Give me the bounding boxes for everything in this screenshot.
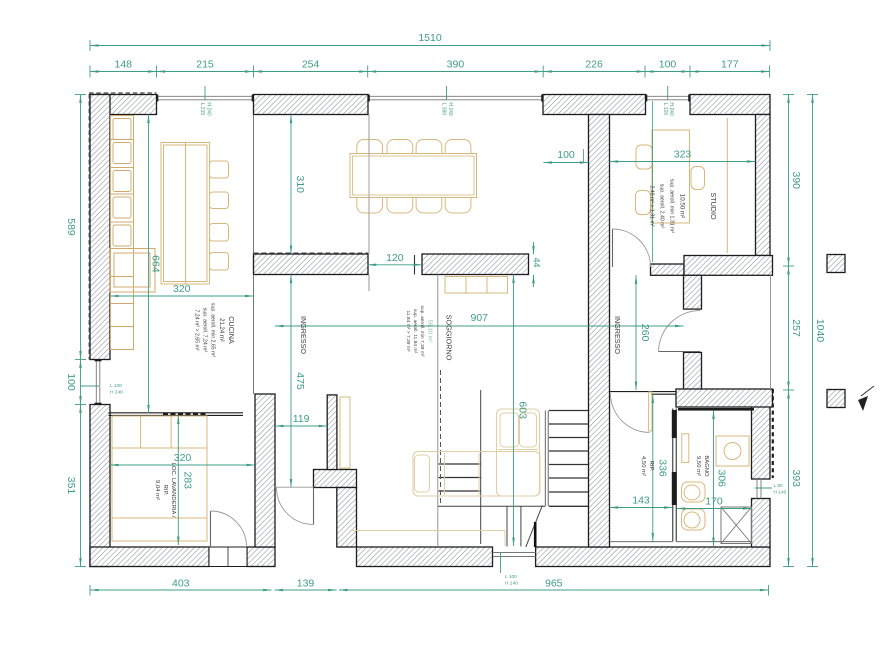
svg-text:100: 100 [557, 149, 575, 161]
svg-text:L 215: L 215 [199, 103, 205, 116]
svg-text:INGRESSO: INGRESSO [299, 316, 308, 354]
svg-text:390: 390 [447, 59, 465, 71]
svg-text:603: 603 [517, 401, 529, 419]
svg-text:1040: 1040 [814, 319, 826, 343]
svg-text:257: 257 [790, 319, 802, 337]
svg-text:11,84 m² > 7,39 m²: 11,84 m² > 7,39 m² [405, 310, 411, 351]
svg-text:59,10 m²: 59,10 m² [427, 320, 433, 343]
svg-text:120: 120 [386, 252, 404, 264]
svg-text:310: 310 [294, 175, 306, 193]
svg-text:283: 283 [182, 471, 194, 489]
svg-text:SOGGIORNO: SOGGIORNO [444, 315, 453, 361]
svg-text:H 240: H 240 [668, 102, 674, 116]
svg-text:BAGNO: BAGNO [703, 455, 709, 477]
svg-text:403: 403 [172, 578, 190, 590]
svg-text:100: 100 [659, 59, 677, 71]
svg-text:21,24 m²: 21,24 m² [218, 318, 224, 342]
svg-text:7,24 m² > 2,65 m²: 7,24 m² > 2,65 m² [194, 309, 200, 350]
svg-text:4,50 m²: 4,50 m² [640, 456, 646, 476]
svg-text:44: 44 [532, 257, 542, 267]
svg-text:H 240: H 240 [447, 102, 453, 116]
svg-text:L 390: L 390 [441, 103, 447, 116]
svg-text:L 80: L 80 [774, 483, 783, 489]
svg-text:H 140: H 140 [505, 581, 518, 587]
svg-text:RIP.: RIP. [648, 461, 654, 472]
svg-text:390: 390 [790, 171, 802, 189]
svg-text:sup. aeroll. min 1,31 m²: sup. aeroll. min 1,31 m² [669, 179, 675, 233]
svg-text:RIP.: RIP. [162, 485, 168, 496]
svg-text:254: 254 [302, 59, 320, 71]
svg-text:664: 664 [150, 255, 162, 273]
svg-text:170: 170 [705, 496, 723, 508]
svg-text:sup. aeroll. 7,24 m²: sup. aeroll. 7,24 m² [202, 308, 208, 353]
svg-text:100: 100 [65, 373, 77, 391]
svg-text:148: 148 [114, 59, 132, 71]
svg-text:9,50 m²: 9,50 m² [695, 456, 701, 476]
svg-text:965: 965 [545, 578, 563, 590]
svg-text:L 100: L 100 [662, 103, 668, 116]
svg-text:320: 320 [173, 283, 191, 295]
svg-text:sup. aeroll. min 2,65 m²: sup. aeroll. min 2,65 m² [210, 303, 216, 357]
svg-text:CUCINA: CUCINA [227, 316, 236, 344]
svg-text:STUDIO: STUDIO [709, 192, 718, 220]
svg-text:139: 139 [297, 578, 315, 590]
svg-text:260: 260 [639, 324, 651, 342]
svg-text:INGRESSO: INGRESSO [613, 316, 622, 354]
svg-text:226: 226 [585, 59, 603, 71]
svg-text:2,40 m² > 1,31 m²: 2,40 m² > 1,31 m² [649, 185, 655, 226]
svg-text:LOC. LAVANDERIA /: LOC. LAVANDERIA / [170, 463, 176, 518]
svg-text:306: 306 [716, 469, 728, 487]
svg-text:907: 907 [470, 312, 488, 324]
svg-text:215: 215 [196, 59, 214, 71]
svg-text:9,04 m²: 9,04 m² [154, 480, 160, 500]
svg-text:1510: 1510 [418, 32, 442, 44]
svg-text:H 240: H 240 [110, 390, 123, 396]
svg-text:589: 589 [65, 218, 77, 236]
svg-text:336: 336 [657, 459, 669, 477]
svg-text:177: 177 [721, 59, 739, 71]
svg-text:sup. aeroll. min 7,39 m²: sup. aeroll. min 7,39 m² [419, 305, 425, 356]
svg-text:L 100: L 100 [110, 383, 122, 389]
svg-text:H 140: H 140 [774, 490, 787, 496]
svg-text:sup. aeroll. 11,84 m²: sup. aeroll. 11,84 m² [412, 309, 418, 354]
svg-text:351: 351 [65, 477, 77, 495]
svg-text:323: 323 [674, 149, 692, 161]
svg-text:L 100: L 100 [505, 574, 517, 580]
svg-text:H 240: H 240 [205, 102, 211, 116]
svg-text:143: 143 [632, 495, 650, 507]
svg-text:sup. aeroll. 2,40 m²: sup. aeroll. 2,40 m² [659, 184, 665, 229]
svg-text:393: 393 [790, 469, 802, 487]
svg-text:119: 119 [293, 413, 310, 425]
svg-text:10,50 m²: 10,50 m² [679, 194, 686, 218]
svg-text:475: 475 [294, 372, 306, 390]
